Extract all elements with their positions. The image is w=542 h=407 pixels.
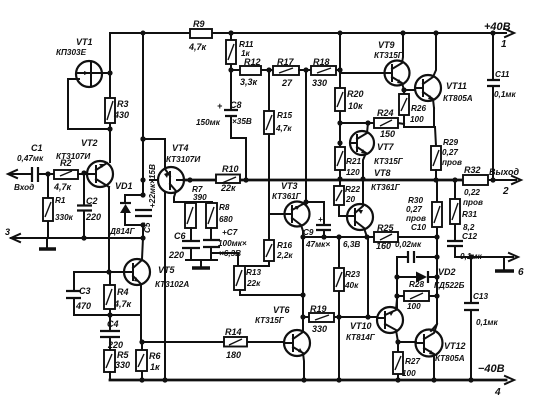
node junction — [162, 377, 167, 382]
transistor VT5 KT3102A — [124, 259, 189, 289]
resistor R4 — [104, 272, 132, 315]
svg-text:4,7к: 4,7к — [275, 124, 292, 133]
svg-text:R15: R15 — [277, 111, 292, 120]
svg-text:R17: R17 — [277, 57, 295, 67]
svg-text:VT5: VT5 — [158, 265, 176, 275]
resistor R22 — [334, 185, 360, 205]
transistor VT9 KT315G — [374, 33, 410, 90]
wire VT5 base — [74, 271, 125, 273]
svg-text:VD2: VD2 — [438, 267, 456, 277]
svg-text:пров: пров — [406, 214, 426, 223]
resistor R15 — [264, 111, 292, 134]
svg-text:180: 180 — [226, 350, 241, 360]
svg-text:R26: R26 — [411, 104, 426, 113]
resistor R1 — [43, 174, 74, 238]
capacitor C8 electrolytic column — [196, 33, 252, 180]
svg-text:VT10: VT10 — [350, 321, 372, 331]
node junction — [300, 314, 305, 319]
svg-text:VT6: VT6 — [273, 305, 291, 315]
svg-text:R32: R32 — [464, 165, 481, 175]
svg-text:0,1мк: 0,1мк — [476, 318, 498, 327]
svg-text:VT12: VT12 — [444, 341, 466, 351]
wire column x143 from rail — [142, 33, 143, 259]
svg-text:4,7к: 4,7к — [188, 42, 207, 52]
svg-text:22к: 22к — [220, 183, 236, 193]
node junction — [395, 339, 400, 344]
svg-text:0,27: 0,27 — [442, 148, 458, 157]
svg-text:С11: С11 — [495, 70, 510, 79]
resistor R17 — [273, 57, 311, 88]
svg-text:R11: R11 — [239, 40, 254, 49]
svg-text:VT1: VT1 — [76, 37, 93, 47]
node arrow -40V terminal 4 — [478, 363, 514, 398]
node junction — [337, 140, 342, 145]
svg-text:КТ805А: КТ805А — [435, 354, 465, 363]
node junction — [228, 67, 233, 72]
resistor R25 — [374, 223, 398, 251]
svg-text:220: 220 — [107, 340, 123, 350]
svg-text:+40В: +40В — [484, 21, 511, 33]
node junction — [107, 126, 112, 131]
svg-text:150мк: 150мк — [196, 118, 221, 127]
svg-text:0,47мк: 0,47мк — [17, 154, 44, 163]
svg-text:150: 150 — [380, 129, 395, 139]
capacitor C2 — [77, 174, 101, 238]
transistor VT6 KT315G — [255, 305, 310, 380]
capacitor C12 — [447, 232, 482, 261]
wire VT9 base — [340, 72, 385, 74]
svg-text:3: 3 — [5, 227, 10, 237]
wire VT4 emitter branch — [143, 139, 165, 168]
svg-text:+: + — [217, 101, 223, 111]
svg-text:0,27: 0,27 — [406, 205, 422, 214]
svg-text:4,7к: 4,7к — [113, 299, 132, 309]
node junction — [300, 234, 305, 239]
resistor R14 — [142, 327, 284, 360]
node junction — [365, 314, 370, 319]
wire VT3 collector column x303 — [302, 231, 304, 317]
node junction — [434, 254, 439, 259]
svg-text:×35В: ×35В — [232, 117, 252, 126]
node junction — [490, 177, 495, 182]
svg-text:R6: R6 — [149, 351, 161, 361]
svg-text:R24: R24 — [377, 108, 394, 118]
node junction — [365, 120, 370, 125]
node junction — [228, 30, 233, 35]
svg-text:R31: R31 — [462, 210, 477, 219]
wire VT4 emitter to R7 R8 — [174, 202, 212, 203]
svg-text:Вход: Вход — [14, 183, 34, 192]
svg-text:VT11: VT11 — [446, 81, 467, 91]
svg-text:С6: С6 — [174, 231, 186, 241]
wire C10 left down — [396, 257, 398, 309]
svg-text:390: 390 — [193, 193, 207, 202]
svg-text:22к: 22к — [246, 279, 261, 288]
node junction — [140, 235, 145, 240]
svg-text:6: 6 — [518, 267, 524, 278]
svg-text:0,22: 0,22 — [464, 188, 480, 197]
svg-text:4: 4 — [494, 387, 501, 398]
resistor R7 — [185, 185, 207, 228]
transistor VT4 KT3107I — [150, 143, 201, 202]
svg-text:КТ315Г: КТ315Г — [374, 157, 404, 166]
wire column x269 VT3 base — [238, 70, 285, 266]
svg-text:330: 330 — [312, 324, 327, 334]
node junction — [107, 70, 112, 75]
node junction — [338, 31, 343, 36]
svg-text:0,1мк: 0,1мк — [494, 90, 516, 99]
capacitor C11 — [487, 33, 516, 180]
svg-text:КТ814Г: КТ814Г — [346, 333, 376, 342]
wire VT2 collector down — [108, 187, 110, 272]
svg-text:1к: 1к — [150, 362, 160, 372]
resistor R27 — [393, 343, 420, 380]
svg-text:С8: С8 — [230, 100, 242, 110]
svg-text:VT2: VT2 — [81, 138, 98, 148]
svg-text:100: 100 — [407, 302, 421, 311]
wire VT5 emitter down — [140, 284, 142, 342]
node junction — [321, 234, 326, 239]
diode VD2 KD522B — [397, 267, 465, 290]
node junction — [337, 176, 342, 181]
svg-text:330: 330 — [312, 78, 327, 88]
svg-text:R20: R20 — [347, 89, 364, 99]
svg-text:120: 120 — [346, 168, 360, 177]
resistor R13 — [234, 266, 261, 295]
svg-text:R14: R14 — [225, 327, 242, 337]
node junction — [395, 377, 400, 382]
capacitor C5 electrolytic — [135, 164, 157, 233]
svg-text:пров: пров — [463, 198, 483, 207]
node junction — [336, 314, 341, 319]
resistor R9 — [188, 19, 212, 52]
node junction — [468, 377, 473, 382]
svg-text:R8: R8 — [219, 203, 230, 212]
svg-text:VT4: VT4 — [172, 143, 189, 153]
svg-text:8,2: 8,2 — [463, 223, 475, 232]
transistor VT8 KT361G — [347, 168, 401, 237]
svg-text:КТ315Г: КТ315Г — [255, 316, 285, 325]
node junction — [360, 176, 365, 181]
wire ground bus y238 with terminal 3 — [5, 227, 144, 242]
transistor VT11 KT805A — [415, 33, 473, 108]
transistor VT12 KT805A — [416, 324, 466, 380]
svg-text:4,7к: 4,7к — [53, 182, 72, 192]
node junction — [433, 30, 438, 35]
node junction — [336, 234, 341, 239]
svg-text:100мк×: 100мк× — [218, 239, 247, 248]
svg-text:R30: R30 — [408, 196, 423, 205]
svg-text:Д814Г: Д814Г — [109, 227, 136, 236]
resistor R26 — [399, 90, 426, 127]
node junction — [303, 199, 308, 204]
svg-text:R9: R9 — [193, 19, 205, 29]
svg-text:2: 2 — [502, 186, 509, 197]
node junction — [81, 235, 86, 240]
svg-text:R23: R23 — [345, 270, 360, 279]
resistor R2 — [53, 158, 78, 192]
wire emitter bottom bus y315 — [74, 314, 141, 316]
svg-text:100: 100 — [410, 115, 424, 124]
capacitor C1 — [17, 143, 54, 182]
svg-text:330к: 330к — [55, 213, 74, 222]
node junction — [434, 274, 439, 279]
node junction — [337, 67, 342, 72]
wire R2 to VT2 base — [78, 173, 88, 175]
resistor R30 — [406, 180, 442, 331]
capacitor C3 — [66, 272, 91, 315]
node junction — [400, 30, 405, 35]
svg-text:100: 100 — [402, 369, 416, 378]
svg-text:470: 470 — [75, 301, 91, 311]
svg-text:47мк×: 47мк× — [305, 240, 330, 249]
svg-text:220: 220 — [168, 250, 184, 260]
node junction — [401, 87, 406, 92]
resistor R6 — [136, 342, 161, 380]
resistor R23 — [334, 237, 360, 380]
node junction — [364, 234, 369, 239]
node junction — [433, 177, 438, 182]
wire middle bus y237 — [303, 236, 437, 238]
capacitor C9 electrolytic — [303, 202, 360, 249]
svg-text:R5: R5 — [117, 350, 129, 360]
resistor R21 — [335, 147, 361, 177]
svg-text:R1: R1 — [55, 196, 66, 205]
ground — [39, 240, 56, 249]
svg-text:330: 330 — [115, 360, 130, 370]
svg-text:VD1: VD1 — [115, 181, 133, 191]
node junction — [394, 293, 399, 298]
resistor R28 — [397, 280, 437, 311]
node junction — [303, 67, 308, 72]
svg-text:R10: R10 — [222, 164, 239, 174]
svg-text:R29: R29 — [443, 138, 458, 147]
svg-text:С10: С10 — [411, 223, 426, 232]
wire VT10 collector to VT12 base — [398, 341, 416, 343]
svg-text:160: 160 — [376, 241, 391, 251]
transistor VT2 KT3107I — [56, 138, 113, 187]
svg-text:2,2к: 2,2к — [276, 251, 293, 260]
node arrow +40V terminal 1 — [484, 21, 514, 50]
resistor R32 output — [463, 165, 488, 207]
svg-text:1: 1 — [501, 39, 507, 50]
node junction — [140, 136, 145, 141]
wire VT11 base — [404, 89, 415, 91]
svg-text:27: 27 — [281, 78, 293, 88]
transistor VT7 KT315G — [350, 123, 404, 179]
resistor R24 — [340, 108, 404, 139]
resistor R12 — [231, 57, 273, 87]
svg-text:С2: С2 — [86, 196, 98, 206]
svg-text:С3: С3 — [79, 286, 91, 296]
wire C7 to R13 top — [213, 253, 238, 266]
svg-text:R27: R27 — [405, 357, 420, 366]
wire R13 bottom to VT3 collector column — [240, 294, 303, 296]
svg-text:R3: R3 — [117, 99, 129, 109]
node junction — [434, 234, 439, 239]
svg-text:С1: С1 — [31, 143, 43, 153]
svg-text:10к: 10к — [348, 101, 363, 111]
capacitor C6 — [168, 228, 200, 260]
resistor R10 — [216, 164, 240, 193]
svg-text:VT3: VT3 — [281, 181, 298, 191]
capacitor C13 — [464, 257, 498, 380]
svg-text:С4: С4 — [107, 319, 119, 329]
svg-text:3,3к: 3,3к — [240, 77, 258, 87]
resistor R19 — [303, 304, 377, 334]
node junction — [394, 274, 399, 279]
svg-text:R21: R21 — [346, 157, 361, 166]
node junction — [45, 171, 50, 176]
node junction — [431, 377, 436, 382]
wire VT8 emitter to VT10 base column x368 — [367, 237, 369, 317]
node junction — [140, 177, 145, 182]
svg-text:КТ3102А: КТ3102А — [155, 280, 189, 289]
svg-text:VT7: VT7 — [377, 142, 395, 152]
svg-text:6,3В: 6,3В — [343, 240, 360, 249]
node junction — [336, 377, 341, 382]
node junction — [139, 339, 144, 344]
diode VD1 D814G — [109, 181, 143, 236]
svg-text:0,02мк: 0,02мк — [395, 240, 422, 249]
wire column x340 from rail — [339, 33, 347, 216]
resistor R29 — [431, 138, 462, 180]
node junction — [434, 293, 439, 298]
svg-text:С12: С12 — [462, 232, 477, 241]
resistor R20 — [335, 88, 364, 111]
wire top +40V rail — [110, 32, 506, 34]
svg-text:R13: R13 — [246, 268, 261, 277]
svg-text:R28: R28 — [409, 280, 424, 289]
ground — [186, 260, 217, 268]
svg-text:КТ3107И: КТ3107И — [56, 152, 91, 161]
node junction — [301, 377, 306, 382]
transistor VT1 KP303E — [56, 37, 110, 87]
node junction — [140, 192, 145, 197]
wire VT11 emitter to R29 — [404, 108, 436, 146]
svg-text:430: 430 — [113, 110, 129, 120]
node junction — [140, 136, 145, 141]
svg-text:КТ805А: КТ805А — [443, 94, 473, 103]
capacitor C10 — [395, 240, 437, 263]
node junction — [300, 292, 305, 297]
wire bottom -40V rail — [110, 379, 506, 382]
svg-text:С13: С13 — [473, 292, 488, 301]
node junction — [141, 31, 146, 36]
svg-text:КТ361Г: КТ361Г — [272, 192, 302, 201]
capacitor C7 electrolytic — [203, 228, 247, 260]
svg-text:VT8: VT8 — [374, 168, 391, 178]
svg-text:20: 20 — [345, 195, 356, 204]
node junction — [81, 170, 86, 175]
node junction — [187, 177, 192, 182]
svg-text:220: 220 — [85, 212, 101, 222]
svg-text:R22: R22 — [345, 185, 360, 194]
wire long vertical x165 — [164, 192, 166, 380]
node junction — [337, 120, 342, 125]
svg-text:+: + — [318, 215, 323, 224]
svg-text:680: 680 — [219, 215, 233, 224]
resistor R5 — [104, 350, 130, 380]
wire output bus — [184, 179, 516, 182]
svg-text:КП303Е: КП303Е — [56, 48, 87, 57]
node junction — [243, 177, 248, 182]
node junction — [266, 67, 271, 72]
svg-text:−40В: −40В — [478, 363, 505, 375]
resistor R31 — [450, 180, 477, 240]
node input arrow terminal — [8, 170, 34, 192]
resistor R16 — [264, 240, 293, 261]
resistor R3 — [105, 98, 129, 123]
wire VT3 emitter column from R17 R18 node — [305, 70, 307, 202]
node junction — [490, 30, 495, 35]
resistor R11 — [226, 40, 254, 64]
svg-text:КТ315Г: КТ315Г — [374, 51, 404, 60]
wire VT1 gate to VT2 collector — [68, 79, 108, 129]
resistor R8 — [206, 203, 233, 228]
node arrow output terminal 2 — [489, 167, 521, 197]
wire ground wire y257 terminal 6 — [455, 253, 524, 278]
resistor R18 — [311, 57, 340, 88]
svg-text:КТ3107И: КТ3107И — [166, 155, 201, 164]
svg-text:+С7: +С7 — [222, 228, 238, 237]
svg-text:+22мк×15В: +22мк×15В — [148, 164, 157, 208]
svg-text:R16: R16 — [277, 241, 292, 250]
node junction — [140, 222, 145, 227]
svg-text:VT9: VT9 — [378, 40, 395, 50]
svg-text:R18: R18 — [313, 57, 330, 67]
node junction — [106, 269, 111, 274]
capacitor C4 — [100, 315, 123, 350]
svg-text:КТ361Г: КТ361Г — [371, 183, 401, 192]
node junction — [452, 177, 457, 182]
ground — [495, 257, 514, 271]
node junction — [107, 312, 112, 317]
node junction — [468, 254, 473, 259]
wire left column x110 — [109, 33, 111, 162]
transistor VT10 KT814G — [346, 299, 403, 342]
svg-text:R12: R12 — [244, 57, 261, 67]
svg-text:R25: R25 — [377, 223, 395, 233]
transistor VT3 KT361G — [272, 181, 310, 231]
svg-text:R19: R19 — [310, 304, 327, 314]
svg-text:40к: 40к — [344, 281, 359, 290]
node junction — [139, 377, 144, 382]
svg-text:R4: R4 — [117, 287, 129, 297]
svg-text:КД522Б: КД522Б — [434, 281, 465, 290]
svg-text:пров: пров — [442, 158, 462, 167]
